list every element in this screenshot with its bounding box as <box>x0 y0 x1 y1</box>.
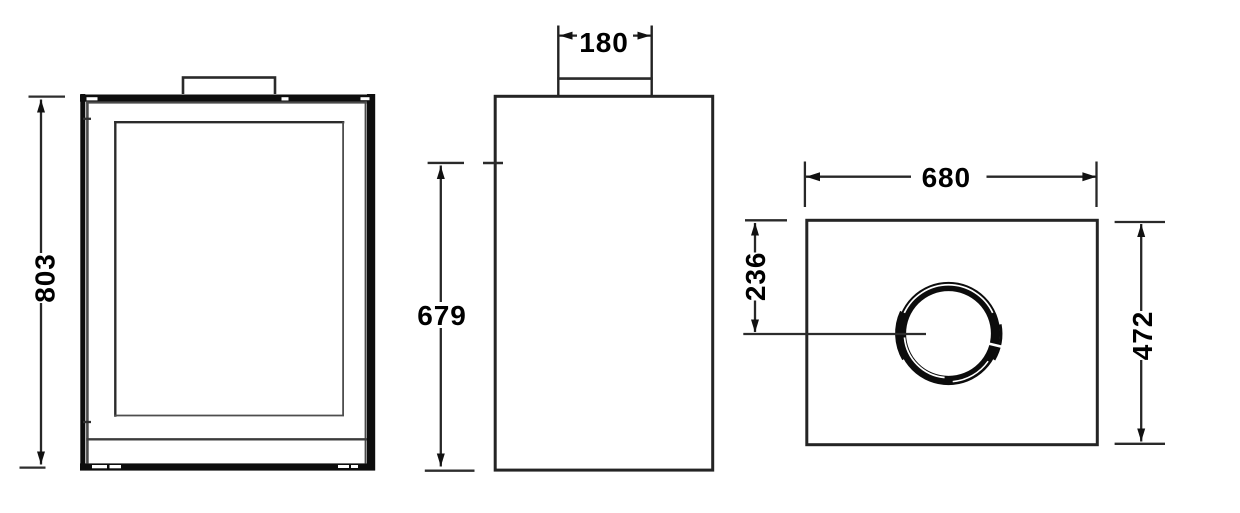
dimension 180 line left <box>560 34 578 36</box>
dimension 472 extension top <box>1115 221 1165 223</box>
dimension 803 extension line top <box>29 95 66 97</box>
svg-text:236: 236 <box>740 252 771 301</box>
front view hinge tick top <box>83 118 91 120</box>
front view flue collar <box>183 78 275 98</box>
dimension 679 tick on body <box>483 162 503 165</box>
front view hinge tick bottom <box>83 421 91 423</box>
front view top band <box>80 95 375 102</box>
dimension 680 arrow right <box>1082 172 1096 181</box>
front view stove body white fill <box>80 94 375 471</box>
dimension 680 line left <box>806 176 911 178</box>
front view top band notches <box>87 97 98 100</box>
dimension 803 line lower <box>40 303 42 465</box>
svg-text:680: 680 <box>922 162 971 193</box>
dimension 236 extension top <box>745 219 787 221</box>
svg-text:679: 679 <box>417 300 466 331</box>
flue outlet ring <box>896 285 1002 382</box>
dimension 679 line lower <box>440 328 442 467</box>
dimension 803 extension line bottom <box>20 466 46 468</box>
svg-text:472: 472 <box>1127 311 1158 360</box>
dimension 680 extension right <box>1095 162 1097 208</box>
front view bottom band notches <box>92 465 107 468</box>
dimension 236 arrow down <box>751 320 759 333</box>
dimension 679 line upper <box>440 166 442 303</box>
front view door outline right <box>365 101 367 463</box>
front view door outline top <box>86 101 367 103</box>
side view collar left line <box>557 26 559 96</box>
svg-text:803: 803 <box>29 253 60 302</box>
dimension 236 line upper <box>754 223 756 253</box>
dimension 472 arrow down <box>1137 429 1145 442</box>
front view right band <box>367 94 375 471</box>
dimension 803 arrow down <box>37 452 45 465</box>
dimension 472 extension bottom <box>1115 443 1165 445</box>
front view window <box>115 122 343 415</box>
front view door outline left <box>86 101 89 463</box>
dimension 472 line lower <box>1140 360 1142 442</box>
front view plinth line <box>86 438 367 440</box>
dimension 679 arrow up <box>437 166 445 179</box>
dimension 679 arrow down <box>437 454 445 467</box>
dimension 680 extension left <box>804 162 806 208</box>
side view collar right line <box>651 26 653 96</box>
dimension 679 extension top <box>428 162 464 164</box>
dimension 180 arrow right <box>638 32 651 40</box>
dimension 803 line upper <box>40 100 42 254</box>
dimension 680 line right <box>987 176 1097 178</box>
front view left band <box>80 94 85 471</box>
front view bottom band <box>80 463 375 470</box>
side view collar top line <box>557 77 653 80</box>
dimension 679 extension bottom <box>425 470 475 472</box>
svg-text:180: 180 <box>579 27 628 58</box>
dimension 472 line upper <box>1140 224 1142 311</box>
dimension 803 arrow up <box>37 100 45 113</box>
dimension 180 arrow left <box>560 32 573 40</box>
side view body <box>495 96 713 470</box>
dimension 472 arrow up <box>1137 224 1145 237</box>
dimension 680 arrow left <box>806 172 820 181</box>
top view body <box>807 220 1098 444</box>
dimension 236 line lower <box>754 301 756 333</box>
dimension 236 arrow up <box>751 223 759 236</box>
leader line to flue centre <box>743 333 926 335</box>
dimension 180 line right <box>633 34 651 36</box>
